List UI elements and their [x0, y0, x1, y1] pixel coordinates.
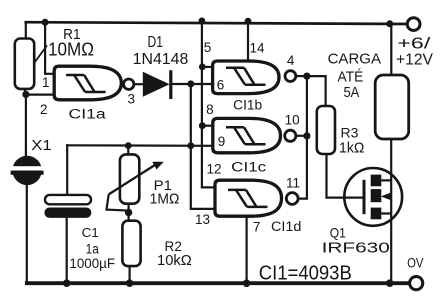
svg-text:1N4148: 1N4148 [133, 51, 189, 68]
wire bottom 0V rail [27, 281, 410, 285]
svg-text:R2: R2 [165, 238, 182, 254]
junction top rail / pin14 [245, 18, 252, 25]
junction R1 bottom / pin2 node [22, 91, 29, 98]
junction timing node / signal line [187, 142, 194, 149]
wire CI1c output to node10 [296, 135, 307, 137]
potentiometer P1 arrow [109, 165, 156, 195]
wire timing node horizontal C1 to pin9 [67, 144, 213, 147]
wire R1 bottom lead to node pin2 [24, 89, 26, 95]
wire node pin2 down to X1 top [25, 95, 27, 157]
svg-text:D1: D1 [147, 34, 163, 51]
load box CARGA [375, 75, 409, 139]
wire left rail upper (top rail corner down to R1 top) [25, 22, 27, 38]
junction 0V rail / Q1 source [386, 279, 394, 287]
wire D1 cathode to CI1b pin6 [171, 83, 212, 85]
junction 0V rail / pin7 [243, 280, 251, 288]
svg-text:+12V: +12V [396, 52, 433, 69]
svg-text:5A: 5A [343, 85, 359, 101]
junction D1 cathode node [187, 80, 194, 87]
leader line R1 value [34, 46, 47, 64]
wire top +V rail [26, 22, 408, 24]
svg-text:CI1=4093B: CI1=4093B [259, 263, 352, 285]
svg-text:1a: 1a [86, 241, 100, 256]
terminal 0V [410, 277, 423, 290]
wire R2 bottom lead [129, 266, 131, 283]
potentiometer P1 body [120, 154, 139, 203]
svg-text:CI1a: CI1a [69, 106, 107, 121]
svg-text:3: 3 [127, 91, 135, 106]
junction 0V rail / R2 [126, 279, 134, 287]
wire signal vertical (D1 node down to pin13) [191, 84, 215, 209]
junction output node pin4 [303, 73, 310, 80]
capacitor C1 bottom plate [44, 208, 91, 218]
Q1 channel segments [371, 175, 382, 187]
NAND gate CI1b [213, 61, 296, 94]
wire CARGA top lead from +V rail [390, 24, 392, 75]
svg-text:5: 5 [204, 40, 212, 55]
svg-text:8: 8 [206, 102, 214, 117]
junction pin8 branch [199, 122, 206, 129]
svg-text:14: 14 [249, 40, 265, 55]
svg-text:11: 11 [286, 175, 300, 190]
svg-text:OV: OV [407, 256, 423, 271]
junction output node pin10 [303, 132, 310, 139]
svg-text:Q1: Q1 [330, 225, 346, 241]
junction pin5 branch [199, 64, 206, 71]
svg-text:ATÉ: ATÉ [338, 68, 364, 85]
svg-text:IRF630: IRF630 [322, 241, 390, 257]
wire VDD line from +V rail to pin12 [202, 21, 215, 187]
wire C1 bottom lead [66, 218, 68, 283]
resistor R3 [317, 106, 335, 154]
wire P1 bottom lead to R2 [128, 204, 130, 221]
Q1 gate bar [363, 180, 366, 214]
wire P1 top lead [127, 146, 129, 155]
svg-text:10kΩ: 10kΩ [157, 253, 192, 269]
svg-text:12: 12 [206, 162, 221, 177]
wire drain-source vertical through Q1 [390, 139, 392, 283]
svg-text:10MΩ: 10MΩ [48, 40, 94, 60]
wire pin8 stub [202, 125, 212, 127]
svg-text:P1: P1 [154, 177, 173, 193]
capacitor C1 top plate [45, 195, 91, 204]
wire X1 bottom to bottom rail [26, 185, 28, 284]
wire CI1a output to D1 anode [134, 83, 143, 85]
svg-text:13: 13 [195, 212, 210, 227]
wire pin14 from +V rail to CI1b top [247, 21, 249, 61]
junction top rail / load branch [386, 20, 393, 27]
wire C1 top lead [66, 145, 68, 195]
potentiometer P1 wiper tail [107, 194, 129, 210]
wire R3 bottom lead to Q1 gate [327, 154, 365, 198]
junction top rail / pin1 branch [42, 19, 49, 26]
Q1 body arrow [381, 193, 391, 201]
NAND gate CI1c [213, 118, 296, 152]
svg-text:CARGA: CARGA [328, 52, 382, 68]
terminal +V [407, 18, 420, 31]
svg-text:R3: R3 [341, 125, 359, 141]
svg-text:+6/: +6/ [397, 36, 431, 53]
svg-text:1000µF: 1000µF [69, 256, 115, 271]
NAND gate CI1a [54, 66, 134, 100]
svg-text:10: 10 [285, 113, 300, 128]
svg-text:2: 2 [40, 102, 48, 117]
junction top rail / VDD input line [199, 18, 206, 25]
svg-text:1kΩ: 1kΩ [339, 141, 364, 157]
svg-text:4: 4 [287, 53, 295, 68]
wire pin5 stub [202, 66, 212, 68]
diode D1 [143, 70, 171, 99]
junction P1 top [125, 142, 132, 149]
wire pin1 from +V rail down and into CI1a [45, 22, 54, 74]
svg-text:1MΩ: 1MΩ [150, 192, 180, 208]
wire CI1b output to node4 [296, 75, 307, 77]
svg-text:1: 1 [42, 75, 50, 90]
junction P1 bottom / wiper [125, 209, 132, 216]
wire pin7 from CI1d bottom to 0V rail [246, 216, 248, 283]
svg-text:X1: X1 [31, 137, 52, 154]
transducer X1 [9, 156, 46, 185]
svg-text:CI1c: CI1c [231, 160, 266, 175]
resistor R1 [15, 39, 34, 89]
wire pin2 from node to CI1a [26, 93, 54, 95]
junction 0V rail / C1 [63, 279, 71, 287]
svg-text:CI1d: CI1d [271, 219, 301, 234]
svg-text:9: 9 [218, 134, 226, 149]
Q1 connectors to drain/source line [381, 180, 391, 213]
svg-text:CI1b: CI1b [233, 97, 262, 112]
MOSFET Q1 [344, 168, 402, 226]
NAND gate CI1d [215, 180, 298, 216]
wire outputs vertical bus down to pin11 [298, 76, 307, 199]
svg-text:7: 7 [253, 219, 261, 234]
resistor R2 [122, 221, 140, 266]
wire node4 right and down to R3 top [307, 76, 326, 106]
svg-text:C1: C1 [82, 225, 99, 240]
svg-text:6: 6 [217, 78, 225, 93]
